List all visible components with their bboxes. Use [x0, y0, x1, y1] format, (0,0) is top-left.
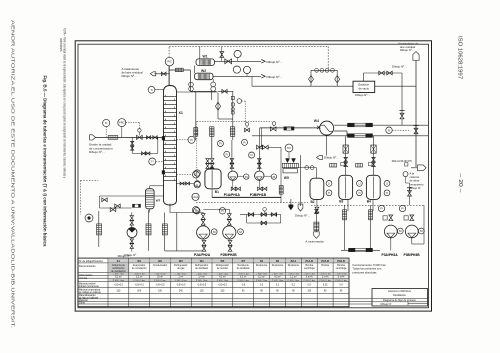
svg-text:centrífuga: centrífuga [304, 267, 315, 270]
svg-text:Todas las presiones son: Todas las presiones son [353, 267, 382, 271]
valve on small line at 129 [270, 127, 276, 131]
svg-text:Condensador: Condensador [153, 264, 168, 267]
motor P3B [418, 228, 424, 234]
instrument on lower header dashed [386, 127, 392, 133]
valve vertical on branch above W1 line [221, 47, 223, 62]
pump P2A [197, 226, 210, 239]
instrument left of B3 lower [326, 190, 332, 196]
svg-text:Dibujo Nº...: Dibujo Nº... [392, 65, 407, 69]
svg-text:Acetona 1 000 litros: Acetona 1 000 litros [388, 289, 412, 293]
svg-text:P 105 / 1 bar: P 105 / 1 bar [335, 280, 347, 282]
svg-text:150: 150 [116, 291, 121, 293]
steam trap pair below W2 right [211, 82, 216, 87]
valves on feed bypass bottom [142, 152, 146, 155]
svg-text:M: M [245, 175, 248, 179]
svg-text:B1: B1 [215, 190, 219, 194]
svg-text:-0,6/+0,5: -0,6/+0,5 [197, 285, 207, 287]
svg-text:0,2: 0,2 [292, 285, 296, 287]
title block [372, 289, 428, 307]
valves below P1A [231, 187, 235, 191]
wire estacion side line [375, 85, 416, 87]
svg-text:PI: PI [243, 140, 246, 144]
pump P1A [228, 171, 237, 180]
instrument TI at column shell [148, 86, 155, 93]
signal feed instruments [105, 127, 107, 138]
svg-text:PI: PI [401, 207, 404, 211]
svg-text:Recipiente: Recipiente [256, 264, 268, 267]
svg-text:LI: LI [196, 183, 198, 187]
condensate drop pipe with class label [195, 92, 197, 140]
svg-text:P 105 / 1 bar: P 105 / 1 bar [272, 280, 284, 282]
instrument right of column upper [188, 136, 195, 143]
svg-text:PI: PI [221, 209, 224, 213]
dashed signal loop far left [80, 180, 82, 214]
svg-text:M42-41-50-08 (PT): M42-41-50-08 (PT) [392, 160, 413, 163]
valve on reflux top [222, 89, 227, 93]
valves on feed bypass vertical [131, 141, 134, 145]
wire P3 discharges [390, 238, 392, 250]
svg-text:técnica: técnica [79, 276, 88, 280]
instrument above P1B lower [249, 152, 255, 158]
valves above P3A [389, 215, 393, 221]
svg-text:Fig. B.5 — Diagrama de tubería: Fig. B.5 — Diagrama de tuberías e instru… [43, 76, 48, 248]
wire W1 outlet line [215, 60, 262, 62]
table tech rows shading [108, 273, 128, 275]
pump P2B [223, 226, 236, 239]
flange boxes on reflux right leg [231, 96, 234, 99]
svg-text:5,2 m²: 5,2 m² [136, 276, 143, 279]
control valve mid product line [245, 122, 249, 126]
svg-text:6 m³/h: 6 m³/h [306, 276, 313, 279]
filter on B3 feed [343, 145, 348, 153]
svg-text:+ 105 / 1 bar: + 105 / 1 bar [320, 274, 332, 276]
svg-text:FRC: FRC [119, 121, 124, 125]
wire column bottom down [169, 204, 171, 213]
svg-text:P 105 / 1 bar: P 105 / 1 bar [154, 280, 166, 282]
instrument near cistern [403, 172, 408, 177]
svg-text:Nº de dibujo/Posición: Nº de dibujo/Posición [79, 259, 103, 263]
wire B3 feed drop [345, 136, 347, 175]
svg-text:240: 240 [179, 291, 184, 293]
svg-text:Dibujo Nº...: Dibujo Nº... [89, 150, 105, 154]
valve on series bypass [261, 221, 266, 225]
svg-text:M: M [399, 229, 402, 233]
instrument above P3A [378, 205, 384, 211]
svg-text:de trabajo en caliente: de trabajo en caliente [79, 291, 102, 294]
vessel B1 reflux drum [205, 169, 221, 189]
svg-text:P 105 / 1 bar: P 105 / 1 bar [175, 280, 187, 282]
svg-text:200: 200 [137, 291, 142, 293]
wire estacion discharge up [363, 73, 365, 81]
arrow dibujo for W2 outlet [261, 75, 265, 79]
wire secondary header lower [252, 135, 428, 137]
svg-text:W5: W5 [284, 176, 289, 180]
svg-text:– 20 –: – 20 – [457, 174, 463, 194]
svg-text:de circulación: de circulación [132, 267, 147, 270]
svg-text:20 m²: 20 m² [157, 276, 163, 279]
svg-text:1,2 m³: 1,2 m³ [290, 276, 297, 279]
column X1 trays [164, 96, 177, 98]
long dashed signal line [197, 120, 245, 122]
svg-text:TIC: TIC [287, 146, 291, 150]
svg-text:150: 150 [200, 291, 205, 293]
wire condensate header to reflux loop [191, 90, 216, 92]
control valve on relief drop [400, 113, 404, 119]
valves on feed line right [146, 136, 150, 139]
svg-text:P1B/PH1B: P1B/PH1B [250, 193, 267, 197]
vessel B4 [366, 175, 380, 199]
pipe label on feed line [108, 136, 118, 140]
spray arrows of W5 [286, 159, 290, 163]
wire P3 header with label [341, 249, 380, 251]
instrument bottom left [85, 214, 93, 222]
svg-text:90: 90 [242, 291, 245, 293]
svg-text:LICA: LICA [193, 195, 199, 199]
motor P1B [271, 174, 276, 179]
svg-text:LI: LI [358, 182, 360, 186]
steam trap pair below W1 left [189, 82, 194, 87]
wire bottom cross header [165, 250, 204, 252]
valve series incineration line [240, 214, 247, 216]
svg-text:+ 105 / 1 bar: + 105 / 1 bar [217, 274, 229, 276]
svg-text:+ 105 / 1 bar: + 105 / 1 bar [304, 274, 316, 276]
svg-text:150: 150 [158, 291, 163, 293]
instrument PIC on column top [165, 57, 174, 66]
svg-text:FI: FI [105, 121, 108, 125]
condenser W2 [195, 73, 214, 80]
svg-text:W1: W1 [203, 55, 208, 59]
wire W5 right riser and drop [300, 155, 302, 206]
svg-text:6,3 m³: 6,3 m³ [115, 276, 122, 279]
svg-text:150: 150 [220, 291, 225, 293]
svg-text:W5: W5 [221, 260, 225, 263]
instrument above middle valve [263, 208, 267, 212]
instrument between B3 B4 upper [357, 181, 363, 187]
pipe label M42-41-50-08 PT bottom [349, 248, 373, 251]
arrow dibujo for W1 outlet [261, 60, 265, 64]
heat exchanger W4 [320, 121, 334, 135]
svg-text:6,2 m³: 6,2 m³ [240, 276, 247, 279]
svg-text:1 m²: 1 m² [178, 276, 183, 279]
column bottoms loop left [100, 195, 164, 197]
wire B4 feed drop [373, 136, 375, 176]
pump P3A [384, 225, 397, 238]
blower A on W1 outlet [234, 50, 241, 57]
wire B2 feed drop [316, 168, 318, 179]
main vent riser to arrow [415, 61, 417, 168]
svg-text:P3B/PH3B: P3B/PH3B [404, 253, 421, 257]
instrument right of B4 upper [384, 181, 390, 187]
control valve actuator on product line [272, 122, 276, 126]
svg-text:TI: TI [196, 171, 199, 175]
wire B3 bottom drop [347, 200, 349, 211]
wire bottom dashed collection header [311, 204, 424, 206]
wire P4 connections [131, 213, 133, 216]
instrument beside reflux [237, 99, 242, 104]
svg-text:0,5: 0,5 [308, 285, 312, 287]
dotted signal line right of column [196, 121, 198, 180]
instrument TI mid column [149, 158, 156, 165]
instrument right of column lower [193, 171, 200, 178]
wire relief branch to left arrow [155, 73, 170, 75]
valves below P2B [228, 240, 232, 245]
svg-text:P1A/PH1A: P1A/PH1A [224, 193, 241, 197]
filter on B4 feed [371, 145, 376, 153]
vertical utility pipe 1 with class label [98, 211, 100, 247]
svg-text:LI: LI [386, 182, 388, 186]
svg-text:W4: W4 [314, 119, 319, 123]
wire W2 outlet drop at right [251, 76, 253, 86]
svg-text:PI: PI [196, 209, 199, 213]
wire P1 suction lines [231, 140, 233, 171]
control valve small right [414, 128, 418, 134]
demister hatch box on vapour line [175, 68, 183, 72]
P1 discharge double riser [259, 128, 261, 147]
svg-text:Dibujo Nº...: Dibujo Nº... [355, 93, 370, 97]
cooler W5 body [282, 163, 298, 167]
wire column top riser [168, 66, 170, 86]
vertical utility pipe 2 with class label [147, 210, 149, 251]
vertical utility pipe 3 with class label [164, 213, 166, 251]
svg-text:FI: FI [388, 128, 391, 132]
svg-text:PI: PI [219, 142, 222, 146]
svg-text:-0,6/+0,5: -0,6/+0,5 [114, 285, 124, 287]
svg-text:P 105 / 1 bar: P 105 / 1 bar [133, 280, 145, 282]
vessel B3 [339, 175, 353, 199]
instrument at sump side [194, 181, 200, 187]
svg-text:Dibujo Nº: Dibujo Nº [118, 254, 131, 258]
vacuum bypass loop [310, 70, 312, 86]
small valves on sump side line [180, 182, 184, 185]
svg-text:Dibujo Nº ...: Dibujo Nº ... [295, 213, 311, 217]
svg-text:Dibujo Nº: Dibujo Nº [381, 302, 392, 306]
wire feed line [96, 136, 164, 138]
svg-text:6,2 m³: 6,2 m³ [258, 276, 265, 279]
control valve on feed line [137, 135, 143, 139]
valve group above B3 [344, 158, 348, 163]
valves below P2A [202, 240, 206, 245]
motor P2B [238, 229, 244, 235]
svg-text:FI: FI [226, 152, 229, 156]
svg-text:+ 105 / 1 bar: + 105 / 1 bar [175, 274, 187, 276]
svg-text:M: M [273, 175, 276, 179]
pipe class label left of B3 valves [330, 164, 337, 167]
vessel B2 [310, 178, 324, 199]
svg-text:M: M [213, 230, 216, 234]
W5 tray [283, 169, 297, 173]
svg-text:Otras: Otras [79, 302, 86, 305]
svg-text:1 m³/h: 1 m³/h [322, 276, 329, 279]
table denomination col1 shading [108, 263, 128, 272]
instrument above P3B [399, 205, 405, 211]
svg-text:+ 105 / 1 bar: + 105 / 1 bar [272, 274, 284, 276]
wire vertical feed right with class label [232, 119, 234, 140]
svg-text:P2B/PH2B: P2B/PH2B [221, 253, 238, 257]
svg-text:-0,6/+0,5: -0,6/+0,5 [218, 285, 228, 287]
arrow right to cistern [418, 165, 427, 171]
instrument at B1 left lower [194, 182, 200, 188]
svg-text:0,2: 0,2 [276, 285, 280, 287]
svg-text:90: 90 [292, 291, 295, 293]
wire reboiler bottom return [149, 209, 151, 213]
svg-text:B3-4: B3-4 [291, 260, 297, 263]
svg-text:cisterna: cisterna [410, 175, 420, 179]
svg-text:90: 90 [340, 291, 343, 293]
svg-text:W1: W1 [137, 260, 141, 263]
instrument left of B3 upper [326, 181, 332, 187]
diamond valve on reflux left leg [215, 102, 220, 110]
svg-text:+ 105 / 1 bar: + 105 / 1 bar [134, 274, 146, 276]
svg-text:Recipiente: Recipiente [288, 264, 300, 267]
svg-text:-0,6/+0,5: -0,6/+0,5 [135, 285, 145, 287]
svg-text:W7: W7 [241, 260, 245, 263]
wire vapour drop to condensers [189, 70, 191, 91]
svg-text:de alma-: de alma- [410, 179, 421, 183]
svg-text:A incineración: A incineración [305, 239, 324, 243]
vertical pipe left of P3 with class label [344, 205, 346, 250]
svg-text:conexiones.: conexiones. [59, 38, 63, 52]
valves below P1B [258, 187, 262, 191]
svg-text:Funcionamiento: 8 000 h/an: Funcionamiento: 8 000 h/an [353, 263, 387, 267]
valves above P2B [227, 214, 231, 220]
svg-text:A la: A la [410, 172, 415, 176]
motor P2A [211, 229, 217, 235]
svg-text:PI: PI [190, 138, 193, 142]
svg-text:Dibujo Nº...: Dibujo Nº... [267, 75, 283, 79]
feed bypass loop [131, 137, 133, 153]
svg-text:P2A-B: P2A-B [321, 260, 329, 263]
svg-text:4,3 m²: 4,3 m² [219, 276, 226, 279]
svg-text:90: 90 [260, 291, 263, 293]
svg-text:+ 105 / 1 bar: + 105 / 1 bar [238, 274, 250, 276]
wire main horizontal header from W4 right lower [334, 130, 347, 132]
wire to cistern arrow [411, 167, 418, 169]
svg-text:0,4: 0,4 [339, 285, 343, 287]
instrument between B3 B4 lower [357, 190, 363, 196]
svg-text:-0,6: -0,6 [241, 285, 246, 287]
svg-text:1,4 m²: 1,4 m² [198, 276, 205, 279]
svg-text:W2: W2 [158, 260, 162, 263]
svg-text:W7: W7 [156, 198, 161, 202]
instrument below sump side [192, 207, 199, 214]
column return nozzle [162, 170, 165, 174]
motor P3A [397, 228, 403, 234]
svg-text:P 105 / 1 bar: P 105 / 1 bar [288, 280, 300, 282]
svg-text:+ 105 / 1 bar: + 105 / 1 bar [196, 274, 208, 276]
vacuum relief drop line [401, 73, 403, 110]
signal dashed to feed control valve [245, 120, 271, 122]
reboiler W7 body [145, 189, 154, 209]
wire W5 to B2 [298, 167, 316, 169]
wire B1 outlet to pumps header [211, 189, 213, 198]
svg-text:Bomba: Bomba [321, 264, 329, 267]
wire B4 bottom drop [372, 200, 374, 211]
valve group above B4 [372, 158, 376, 163]
svg-text:M: M [420, 229, 423, 233]
svg-text:FI: FI [250, 153, 253, 157]
valve on relief branch [161, 72, 166, 76]
wire P2 suction header [202, 213, 204, 215]
estacion de vacio box [353, 81, 375, 92]
wire W4 bottom drop [325, 135, 327, 156]
svg-text:+ 105 / 1 bar: + 105 / 1 bar [154, 274, 166, 276]
outline drop arrow right [298, 204, 303, 211]
equipment table row lines [78, 262, 349, 264]
valve pair mid right [257, 145, 263, 149]
motor P1A [244, 174, 249, 179]
valve circles on vacuum bypass top [315, 68, 319, 72]
instrument at B1 left upper [194, 170, 200, 176]
svg-text:-0,6/+0,5: -0,6/+0,5 [155, 285, 165, 287]
pipe label on loop [133, 204, 141, 207]
svg-text:presiones absolutas: presiones absolutas [353, 270, 378, 274]
instrument FI on feed [103, 119, 110, 126]
svg-text:P 105 / 1 bar: P 105 / 1 bar [217, 280, 229, 282]
signal dashes from reflux instrument [242, 100, 246, 102]
pipe class label left of B4 valves [356, 164, 363, 167]
svg-text:B3: B3 [339, 200, 343, 204]
svg-text:Destilación: Destilación [393, 293, 406, 297]
svg-text:P 105 / 1 bar: P 105 / 1 bar [256, 280, 268, 282]
instrument LICA below [192, 193, 199, 200]
table header shading [108, 258, 128, 262]
svg-text:Dibujo Nº...: Dibujo Nº... [122, 74, 137, 78]
svg-text:-0,6/+0,5: -0,6/+0,5 [176, 285, 186, 287]
svg-text:de destilado: de destilado [237, 267, 251, 270]
series bypass loop [246, 215, 248, 224]
svg-text:W3: W3 [179, 260, 183, 263]
filled drop arrow left [289, 205, 294, 211]
svg-text:de vacío: de vacío [359, 86, 370, 90]
svg-text:P 105 / 1 bar: P 105 / 1 bar [196, 280, 208, 282]
wire cistern drop [405, 177, 407, 183]
valves on vacuum discharge [379, 71, 384, 75]
wire overhead vapour line [169, 69, 190, 71]
valves upper small [110, 208, 116, 212]
equipment table column lines [107, 258, 109, 307]
wire main horizontal header from W4 right upper [334, 124, 428, 126]
wire column sump side line [177, 183, 195, 185]
svg-text:P 105 / 1 bar: P 105 / 1 bar [319, 280, 331, 282]
svg-text:Dibujo Nº...: Dibujo Nº... [400, 48, 414, 52]
flanged valves on series [249, 213, 254, 217]
svg-text:W4: W4 [200, 260, 204, 263]
feed arrow from concentration unit [90, 135, 96, 140]
svg-text:X1: X1 [179, 111, 183, 115]
valves above P2A [201, 214, 205, 220]
column feed nozzle [162, 136, 165, 140]
wire product line from P1 discharge to W4 [260, 127, 320, 129]
svg-text:0,25: 0,25 [323, 285, 328, 287]
svg-text:6 m³/h: 6 m³/h [338, 276, 345, 279]
svg-text:cenamiento: cenamiento [410, 182, 424, 186]
svg-text:de residuo: de residuo [217, 267, 229, 270]
svg-text:Diagrama de flujo de proceso: Diagrama de flujo de proceso [383, 299, 416, 302]
svg-text:150: 150 [307, 291, 312, 293]
svg-text:Dibujo Nº...: Dibujo Nº... [267, 60, 283, 64]
wire W5 left drop with class label [280, 147, 282, 203]
instrument above W5 [285, 144, 293, 152]
wire TI to column [155, 89, 164, 91]
svg-text:B2: B2 [311, 200, 315, 204]
svg-text:TI: TI [328, 191, 331, 195]
condenser W1 [196, 59, 215, 66]
svg-text:PIC: PIC [167, 60, 171, 64]
svg-text:ISO 10628:1997: ISO 10628:1997 [457, 36, 463, 79]
arrow a incineracion [314, 232, 320, 239]
svg-text:LI: LI [328, 182, 330, 186]
svg-text:P 105 / 1 bar: P 105 / 1 bar [237, 280, 249, 282]
